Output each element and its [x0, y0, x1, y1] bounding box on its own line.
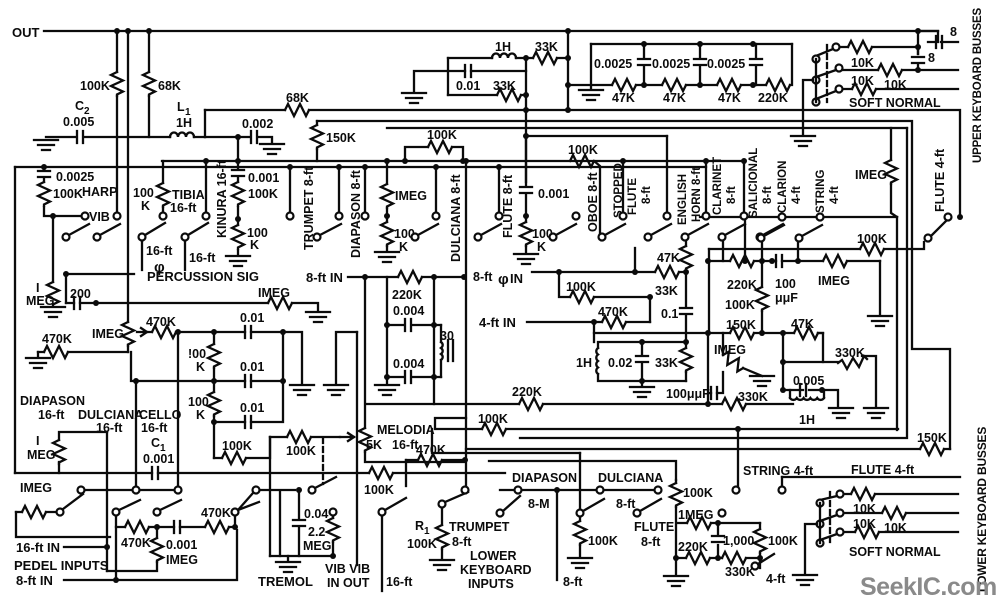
wire salicional stub: [743, 161, 745, 212]
svg-text:8: 8: [928, 51, 935, 65]
switch contact salicional: [741, 213, 748, 220]
svg-text:C: C: [151, 436, 160, 450]
inductor of 1H box: [596, 348, 598, 374]
svg-text:DULCIANA 8-ft: DULCIANA 8-ft: [449, 173, 463, 262]
wire 100K loop: [559, 272, 650, 322]
svg-text:33K: 33K: [655, 284, 678, 298]
svg-text:IMEG: IMEG: [818, 274, 850, 288]
switch contact string4: [733, 487, 740, 494]
svg-text:150K: 150K: [326, 131, 356, 145]
svg-text:0.0025: 0.0025: [652, 57, 690, 71]
resistor 68K horizontal: [285, 104, 309, 116]
svg-text:IMEG: IMEG: [855, 168, 887, 182]
resistor 330K bottom: [718, 557, 760, 559]
svg-text:10K: 10K: [851, 56, 874, 70]
svg-text:16-ft: 16-ft: [141, 421, 168, 435]
svg-text:100K: 100K: [478, 412, 508, 426]
svg-text:220K: 220K: [758, 91, 788, 105]
resistor 10K mid: [843, 69, 958, 71]
wire 0.002 row to percussion cap: [205, 137, 272, 161]
ground flute: [514, 254, 538, 264]
resistor 100K kinura lower: [232, 225, 244, 249]
svg-text:IMEG: IMEG: [714, 343, 746, 357]
svg-text:STRING: STRING: [815, 170, 827, 214]
svg-text:68K: 68K: [158, 79, 181, 93]
wire 477 row: [782, 476, 960, 478]
capacitor 1000: [712, 536, 724, 542]
svg-text:100: 100: [775, 277, 796, 291]
switch contact VIB left: [82, 213, 89, 220]
svg-text:IN OUT: IN OUT: [327, 576, 370, 590]
wire trumpet stub a: [289, 167, 291, 212]
svg-text:100K: 100K: [407, 537, 437, 551]
svg-text:K: K: [196, 408, 205, 422]
switch upper keyboard top contact: [833, 44, 840, 51]
svg-text:HORN 8-ft: HORN 8-ft: [691, 167, 703, 222]
svg-text:100K: 100K: [427, 128, 457, 142]
wire tremol bottom: [270, 555, 333, 557]
capacitor 100uuF cluster: [776, 255, 782, 267]
svg-text:100K: 100K: [53, 187, 83, 201]
capacitor 100uuF mid: [708, 333, 723, 404]
resistor 68K vertical: [143, 72, 155, 96]
svg-text:2.2: 2.2: [308, 525, 325, 539]
chain IMEG/100K diapason: [384, 158, 390, 164]
svg-text:4-ft IN: 4-ft IN: [479, 315, 516, 330]
svg-text:1: 1: [424, 526, 430, 537]
svg-text:33K: 33K: [493, 79, 516, 93]
svg-text:UPPER KEYBOARD BUSSES: UPPER KEYBOARD BUSSES: [972, 8, 984, 163]
svg-text:SALICIONAL: SALICIONAL: [748, 148, 760, 218]
capacitor 0.001 pedal: [157, 526, 205, 528]
svg-text:φ: φ: [154, 259, 165, 276]
svg-text:150K: 150K: [726, 318, 756, 332]
resistor 470K 4ft: [602, 316, 626, 328]
svg-text:FLUTE 8-ft: FLUTE 8-ft: [501, 174, 515, 238]
wire english horn drop: [666, 136, 668, 212]
svg-text:4-ft: 4-ft: [791, 186, 803, 204]
svg-text:MEG: MEG: [27, 448, 55, 462]
resistor 100K diapason: [381, 222, 393, 246]
wire bus two: [317, 121, 950, 449]
wire melodia drop to circle: [405, 460, 407, 486]
wire flute 136 link: [526, 135, 667, 137]
wire vib out vertical: [356, 332, 358, 565]
svg-text:IMEG: IMEG: [92, 327, 124, 341]
svg-text:TIBIA: TIBIA: [172, 188, 205, 202]
switch contact flute4 low: [779, 487, 786, 494]
svg-text:16-ft: 16-ft: [189, 251, 216, 265]
svg-text:IMEG: IMEG: [395, 189, 427, 203]
svg-text:DIAPASON: DIAPASON: [20, 394, 85, 408]
resistor 47K b: [662, 79, 686, 91]
wire 16ft in: [64, 546, 107, 548]
svg-text:33K: 33K: [535, 40, 558, 54]
svg-text:100μμF: 100μμF: [666, 387, 710, 401]
svg-text:8: 8: [950, 25, 957, 39]
switch contact 16ft a: [78, 487, 85, 494]
wire 100K tremolo row: [270, 436, 340, 438]
switch contact trumpet a: [287, 213, 294, 220]
switch trumpet arm: [314, 234, 321, 241]
svg-text:100K: 100K: [568, 143, 598, 157]
svg-text:470K: 470K: [42, 332, 72, 346]
switch clarion arm: [758, 235, 765, 242]
wire rail lower: [15, 166, 706, 168]
switch contact dulciana a: [597, 487, 604, 494]
svg-text:I: I: [36, 281, 39, 295]
svg-text:LOWER: LOWER: [470, 549, 517, 563]
switch pedal a: [57, 509, 64, 516]
svg-text:FLUTE 4-ft: FLUTE 4-ft: [851, 463, 915, 477]
capacitor 0.0025 c: [755, 44, 757, 85]
wire long vertical 466: [465, 161, 467, 486]
resistor 470K pot out: [147, 331, 214, 333]
svg-text:8-ft: 8-ft: [762, 186, 774, 204]
switch contact tibia: [160, 213, 167, 220]
capacitor 0.01 c: [214, 381, 283, 422]
switch contact flute4: [945, 214, 952, 221]
resistor 2.2MEG: [332, 516, 334, 556]
junction dot at C2 row: [235, 134, 241, 140]
switch clarinet arm: [719, 234, 726, 241]
capacitor C2: [77, 131, 83, 143]
wire bus three: [387, 127, 907, 129]
wire riser from C2 row to 68K bus: [204, 110, 206, 137]
switch pedal d: [232, 509, 239, 516]
svg-text:SOFT NORMAL: SOFT NORMAL: [849, 545, 941, 559]
resistor 100K flute: [520, 222, 532, 246]
ground I MEG: [41, 307, 65, 317]
wire 283 link: [283, 332, 302, 383]
wire nested L1: [435, 418, 898, 429]
switch diapason arm: [412, 234, 419, 241]
resistor IMEG pedal: [16, 511, 57, 513]
capacitor 0.001 flute: [520, 187, 532, 193]
svg-text:100K: 100K: [857, 232, 887, 246]
wire vertical OUT to C2 wire: [148, 31, 150, 137]
wire 404 long row: [366, 403, 793, 405]
resistor IMEG flute4 column: [891, 128, 897, 430]
switch string arm: [796, 235, 803, 242]
svg-text:330K: 330K: [725, 565, 755, 579]
wire I MEG drop: [52, 216, 54, 282]
switch contact 1MEG: [719, 510, 726, 517]
svg-text:16-ft: 16-ft: [170, 201, 197, 215]
resistor 100K right: [709, 242, 924, 249]
svg-text:0.0025: 0.0025: [56, 170, 94, 184]
resistor 100K L1: [482, 423, 506, 435]
node dot harp: [41, 164, 47, 170]
resistor 100K tremolo: [287, 431, 311, 443]
resistor 10K lower b: [844, 512, 958, 514]
svg-text:4-ft: 4-ft: [766, 572, 786, 586]
wire stopped flute stub: [622, 161, 624, 212]
svg-text:0.002: 0.002: [242, 117, 273, 131]
resistor 100K to tremolo row: [214, 437, 270, 458]
svg-text:ENGLISH: ENGLISH: [677, 174, 689, 225]
ground 676: [675, 558, 677, 574]
svg-text:330K: 330K: [835, 346, 865, 360]
wire bus 68K row: [205, 110, 960, 217]
ground 876: [864, 408, 888, 418]
wire long vertical 365: [364, 277, 366, 428]
svg-text:0.01: 0.01: [240, 401, 264, 415]
capacitor C1: [152, 467, 158, 479]
wire cap bank bottom drop: [567, 85, 569, 110]
svg-text:8-ft: 8-ft: [641, 535, 661, 549]
resistor 100K cluster vertical: [761, 311, 763, 333]
resistor 100K dulciana drop: [579, 517, 581, 556]
resistor 100K harp: [38, 182, 50, 206]
resistor 33K horizontal: [533, 52, 557, 64]
svg-text:R: R: [415, 519, 424, 533]
svg-text:OBOE 8-ft: OBOE 8-ft: [586, 171, 600, 232]
svg-text:16-ft: 16-ft: [386, 575, 413, 589]
svg-text:0.01: 0.01: [240, 311, 264, 325]
wire top rail of cap bank: [591, 43, 792, 45]
svg-text:K: K: [196, 360, 205, 374]
svg-text:0.001: 0.001: [166, 538, 197, 552]
resistor 470K left: [38, 351, 128, 353]
svg-text:470K: 470K: [121, 536, 151, 550]
switch contact 16ft trumpet: [379, 509, 386, 516]
svg-text:8-ft: 8-ft: [726, 186, 738, 204]
svg-text:0.0025: 0.0025: [594, 57, 632, 71]
capacitor 8 vertical: [917, 31, 919, 70]
resistor 100K phi: [570, 291, 594, 303]
svg-text:16-ft: 16-ft: [38, 408, 65, 422]
dots on 47K rail: [565, 82, 571, 88]
wire left border vertical: [14, 167, 16, 473]
wire nested L2: [520, 128, 907, 438]
wire vertical from OUT to VIB switch: [116, 31, 118, 212]
svg-text:SOFT NORMAL: SOFT NORMAL: [849, 96, 941, 110]
svg-text:φ: φ: [498, 271, 509, 288]
svg-text:8-ft IN: 8-ft IN: [16, 573, 53, 588]
wire 47K rail: [568, 44, 792, 85]
wire 4-ft in row: [527, 321, 650, 323]
wire phi in row: [532, 271, 686, 273]
resistor 47K a: [612, 79, 636, 91]
svg-text:5K: 5K: [366, 438, 382, 452]
resistor 33K box: [685, 342, 687, 381]
resistor R1 100K: [441, 508, 443, 558]
svg-text:MELODIA: MELODIA: [377, 423, 435, 437]
ground R1: [430, 560, 454, 570]
chain 0.001/100K at x=238: [235, 158, 241, 164]
resistor 330K slant: [838, 356, 867, 369]
svg-text:VIB: VIB: [89, 210, 110, 224]
svg-text:0.1: 0.1: [661, 307, 678, 321]
resistor IMEG diapason: [381, 184, 393, 208]
resistor 47K cluster: [794, 327, 818, 339]
resistor IMEG cluster: [823, 255, 847, 267]
resistor 33K phi: [655, 266, 679, 278]
ground lower bank: [793, 575, 817, 585]
svg-text:8-ft: 8-ft: [641, 186, 653, 204]
capacitor 0.01 a: [214, 331, 283, 333]
switch 4ft arm: [752, 563, 759, 570]
svg-text:!00: !00: [188, 347, 206, 361]
resistor 220K 404: [519, 398, 543, 410]
svg-text:47K: 47K: [718, 91, 741, 105]
wire kinura stub: [205, 161, 207, 212]
inductor 1H lower: [790, 390, 824, 400]
switch pole bar lower: [819, 503, 821, 543]
wire long vertical from OUT down to tremolo pot: [127, 31, 129, 322]
wire 490 row right: [500, 489, 654, 491]
capacitor 0.001 kinura: [232, 170, 244, 176]
svg-text:470K: 470K: [146, 315, 176, 329]
svg-text:47K: 47K: [791, 317, 814, 331]
wire rail upper: [162, 160, 744, 162]
wire tremol box: [260, 490, 295, 556]
wire diapason stub: [364, 167, 366, 212]
capacitor 0.0025 harp: [43, 167, 45, 182]
wire rail right segment: [700, 216, 897, 218]
svg-text:33K: 33K: [655, 356, 678, 370]
svg-text:IN: IN: [510, 271, 523, 286]
resistor IMEG slant to ground: [722, 333, 724, 355]
svg-text:8-ft: 8-ft: [563, 575, 583, 589]
wire pole to ground lower: [805, 524, 817, 573]
switch bot: [837, 529, 844, 536]
capacitor 0.0025 b: [699, 44, 701, 85]
ground of cap bank: [579, 90, 603, 100]
resistor 10K lower a: [844, 493, 958, 495]
svg-text:MEG: MEG: [303, 539, 331, 553]
svg-text:47K: 47K: [612, 91, 635, 105]
resistor 100K kinura: [232, 182, 244, 206]
svg-text:STOPPED: STOPPED: [613, 163, 625, 218]
wire nested L4: [432, 429, 580, 453]
svg-text:8-ft IN: 8-ft IN: [306, 270, 343, 285]
switch 16-ft phi a: [139, 234, 146, 241]
switch contact english horn: [664, 213, 671, 220]
wire 557 8ft drop: [556, 490, 558, 580]
svg-text:8-ft: 8-ft: [452, 535, 472, 549]
wire percussion sig row: [66, 274, 318, 310]
svg-text:1H: 1H: [576, 356, 592, 370]
resistor 220K in box: [398, 271, 422, 283]
capacitor 200: [74, 297, 80, 309]
resistor 470K pedal b: [205, 521, 229, 533]
switch contact string: [817, 214, 824, 221]
switch pole bar: [815, 59, 817, 102]
svg-text:0.001: 0.001: [143, 452, 174, 466]
resistor 1MEG bottom: [687, 517, 711, 529]
ground kinura: [237, 250, 239, 254]
resistor 33K lower: [448, 94, 526, 96]
switch contact diapason: [362, 213, 369, 220]
capacitor 0.02: [641, 342, 643, 381]
svg-text:PEDEL INPUTS: PEDEL INPUTS: [14, 558, 109, 573]
svg-text:C: C: [75, 99, 84, 113]
ground under 1H box: [641, 381, 643, 385]
wire 594 drop: [593, 322, 595, 342]
wire OUT bus: [44, 30, 938, 32]
svg-text:16-ft: 16-ft: [146, 244, 173, 258]
resistor 10K low: [843, 88, 958, 90]
svg-text:150K: 150K: [917, 431, 947, 445]
switch salicional arm: [757, 234, 764, 241]
svg-text:0.01: 0.01: [456, 79, 480, 93]
switch contact trumpet b: [336, 213, 343, 220]
svg-text:TRUMPET: TRUMPET: [449, 520, 510, 534]
switch contact R1: [439, 501, 446, 508]
wire 270 vertical: [269, 437, 271, 556]
wire 336 drop to ground: [336, 332, 357, 383]
svg-text:470K: 470K: [598, 305, 628, 319]
resistor 100K col a: [213, 332, 215, 381]
svg-text:IMEG: IMEG: [20, 481, 52, 495]
resistor 150K L3: [920, 443, 944, 455]
ground at left of C2: [34, 140, 58, 150]
switch diapason arm bottom: [497, 510, 504, 517]
switch mid: [837, 510, 844, 517]
potentiometer IMEG: [122, 322, 134, 346]
capacitor 0.002: [251, 131, 257, 143]
wire vertical 526 long: [525, 58, 527, 182]
svg-text:1H: 1H: [176, 116, 192, 130]
wire 220K box sides: [387, 277, 434, 325]
capacitor 8 top: [918, 31, 958, 42]
switch contact kinura: [203, 213, 210, 220]
switch pedal b: [113, 509, 120, 516]
resistor 100K oboe bypass: [594, 161, 600, 233]
resistor 100K bypass over rail: [405, 147, 463, 161]
capacitor 0.0025 a: [643, 44, 645, 85]
svg-text:47K: 47K: [663, 91, 686, 105]
svg-text:I: I: [36, 434, 39, 448]
switch mid contact: [836, 65, 843, 72]
svg-text:220K: 220K: [392, 288, 422, 302]
svg-text:470K: 470K: [201, 506, 231, 520]
switch contact dulciana: [433, 213, 440, 220]
resistor 220K cluster: [730, 255, 754, 267]
wire string/flute drops: [737, 429, 739, 486]
ground tremol: [287, 556, 289, 560]
svg-text:100K: 100K: [80, 79, 110, 93]
resistor 150K vertical: [316, 121, 318, 161]
svg-text:FLUTE: FLUTE: [627, 178, 639, 215]
svg-text:220K: 220K: [678, 540, 708, 554]
svg-text:FLUTE 4-ft: FLUTE 4-ft: [933, 148, 947, 212]
svg-text:OUT: OUT: [12, 25, 40, 40]
resistor 47K vertical: [685, 241, 687, 246]
svg-text:0.004: 0.004: [393, 304, 424, 318]
inductor L1: [170, 133, 194, 138]
switch contact flute: [496, 213, 503, 220]
ground diapason: [375, 252, 399, 262]
capacitor 0.04: [298, 490, 300, 556]
switch contact tremol b: [309, 487, 316, 494]
wire dulciana stub: [435, 167, 437, 212]
switch contact 16ft b: [133, 487, 140, 494]
resistor 150K cluster: [730, 327, 754, 339]
wire flute stub: [498, 167, 500, 212]
svg-text:IMEG: IMEG: [166, 553, 198, 567]
resistor 100K 474: [369, 467, 393, 479]
ground below 0.002: [260, 144, 284, 154]
switch 16-ft phi b: [182, 234, 189, 241]
ground under 0.01 wire: [402, 93, 426, 103]
switch flute 8ft: [634, 510, 641, 517]
switch lower contact: [836, 86, 843, 93]
svg-text:100K: 100K: [222, 439, 252, 453]
wire 473 row: [15, 472, 505, 474]
